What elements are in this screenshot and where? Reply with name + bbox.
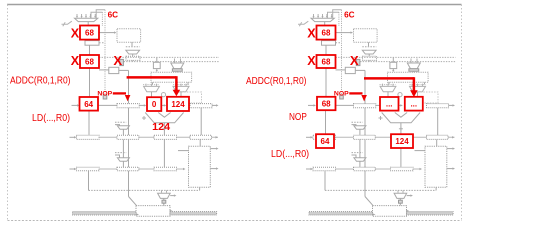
svg-text:6C: 6C [108, 10, 119, 19]
box IR 68 right [317, 55, 336, 68]
svg-text:ADDC(R0,1,R0): ADDC(R0,1,R0) [10, 76, 71, 87]
left datapath copy [62, 10, 220, 217]
svg-text:LD(...,R0): LD(...,R0) [271, 149, 309, 160]
box PC 68 right [317, 26, 336, 40]
box 124 left [167, 97, 189, 111]
svg-text:NOP: NOP [289, 112, 307, 123]
svg-text:X: X [71, 54, 80, 68]
box 68 rf row right [317, 97, 336, 110]
svg-text:NOP: NOP [97, 90, 112, 97]
svg-text:...: ... [386, 100, 393, 109]
svg-text:X: X [307, 26, 316, 40]
svg-text:0: 0 [152, 100, 157, 109]
frame right [461, 5, 463, 221]
svg-text:124: 124 [152, 122, 170, 133]
right datapath copy [298, 10, 456, 217]
frame top [7, 4, 462, 6]
svg-text:6C: 6C [344, 10, 355, 19]
svg-text:124: 124 [171, 100, 185, 109]
box PC 68 left [80, 26, 99, 40]
svg-text:LD(...,R0): LD(...,R0) [32, 113, 70, 124]
box dots 2 right [405, 97, 423, 111]
frame bottom [8, 220, 462, 222]
nop arrow left [113, 93, 131, 101]
box 64 right [316, 134, 334, 148]
box 0 left [147, 97, 161, 111]
nop arrow right [349, 93, 367, 101]
svg-text:68: 68 [322, 100, 331, 109]
svg-text:X: X [307, 54, 316, 68]
svg-text:X: X [71, 26, 80, 40]
svg-text:124: 124 [395, 137, 409, 146]
svg-text:68: 68 [322, 57, 331, 66]
box 124 right [391, 134, 413, 148]
svg-text:68: 68 [85, 57, 94, 66]
svg-text:68: 68 [322, 29, 331, 38]
box IR 68 left [80, 55, 99, 68]
box dots 1 right [380, 97, 399, 111]
svg-text:X: X [113, 53, 122, 68]
svg-text:X: X [350, 53, 359, 68]
bypass arrow left [127, 76, 181, 96]
box 64 left [80, 97, 99, 111]
frame left [7, 5, 9, 221]
svg-text:ADDC(R0,1,R0): ADDC(R0,1,R0) [246, 76, 307, 87]
svg-text:...: ... [410, 100, 417, 109]
svg-text:68: 68 [85, 29, 94, 38]
svg-text:64: 64 [321, 137, 330, 146]
svg-text:64: 64 [84, 100, 93, 109]
bypass arrow right [364, 77, 418, 97]
